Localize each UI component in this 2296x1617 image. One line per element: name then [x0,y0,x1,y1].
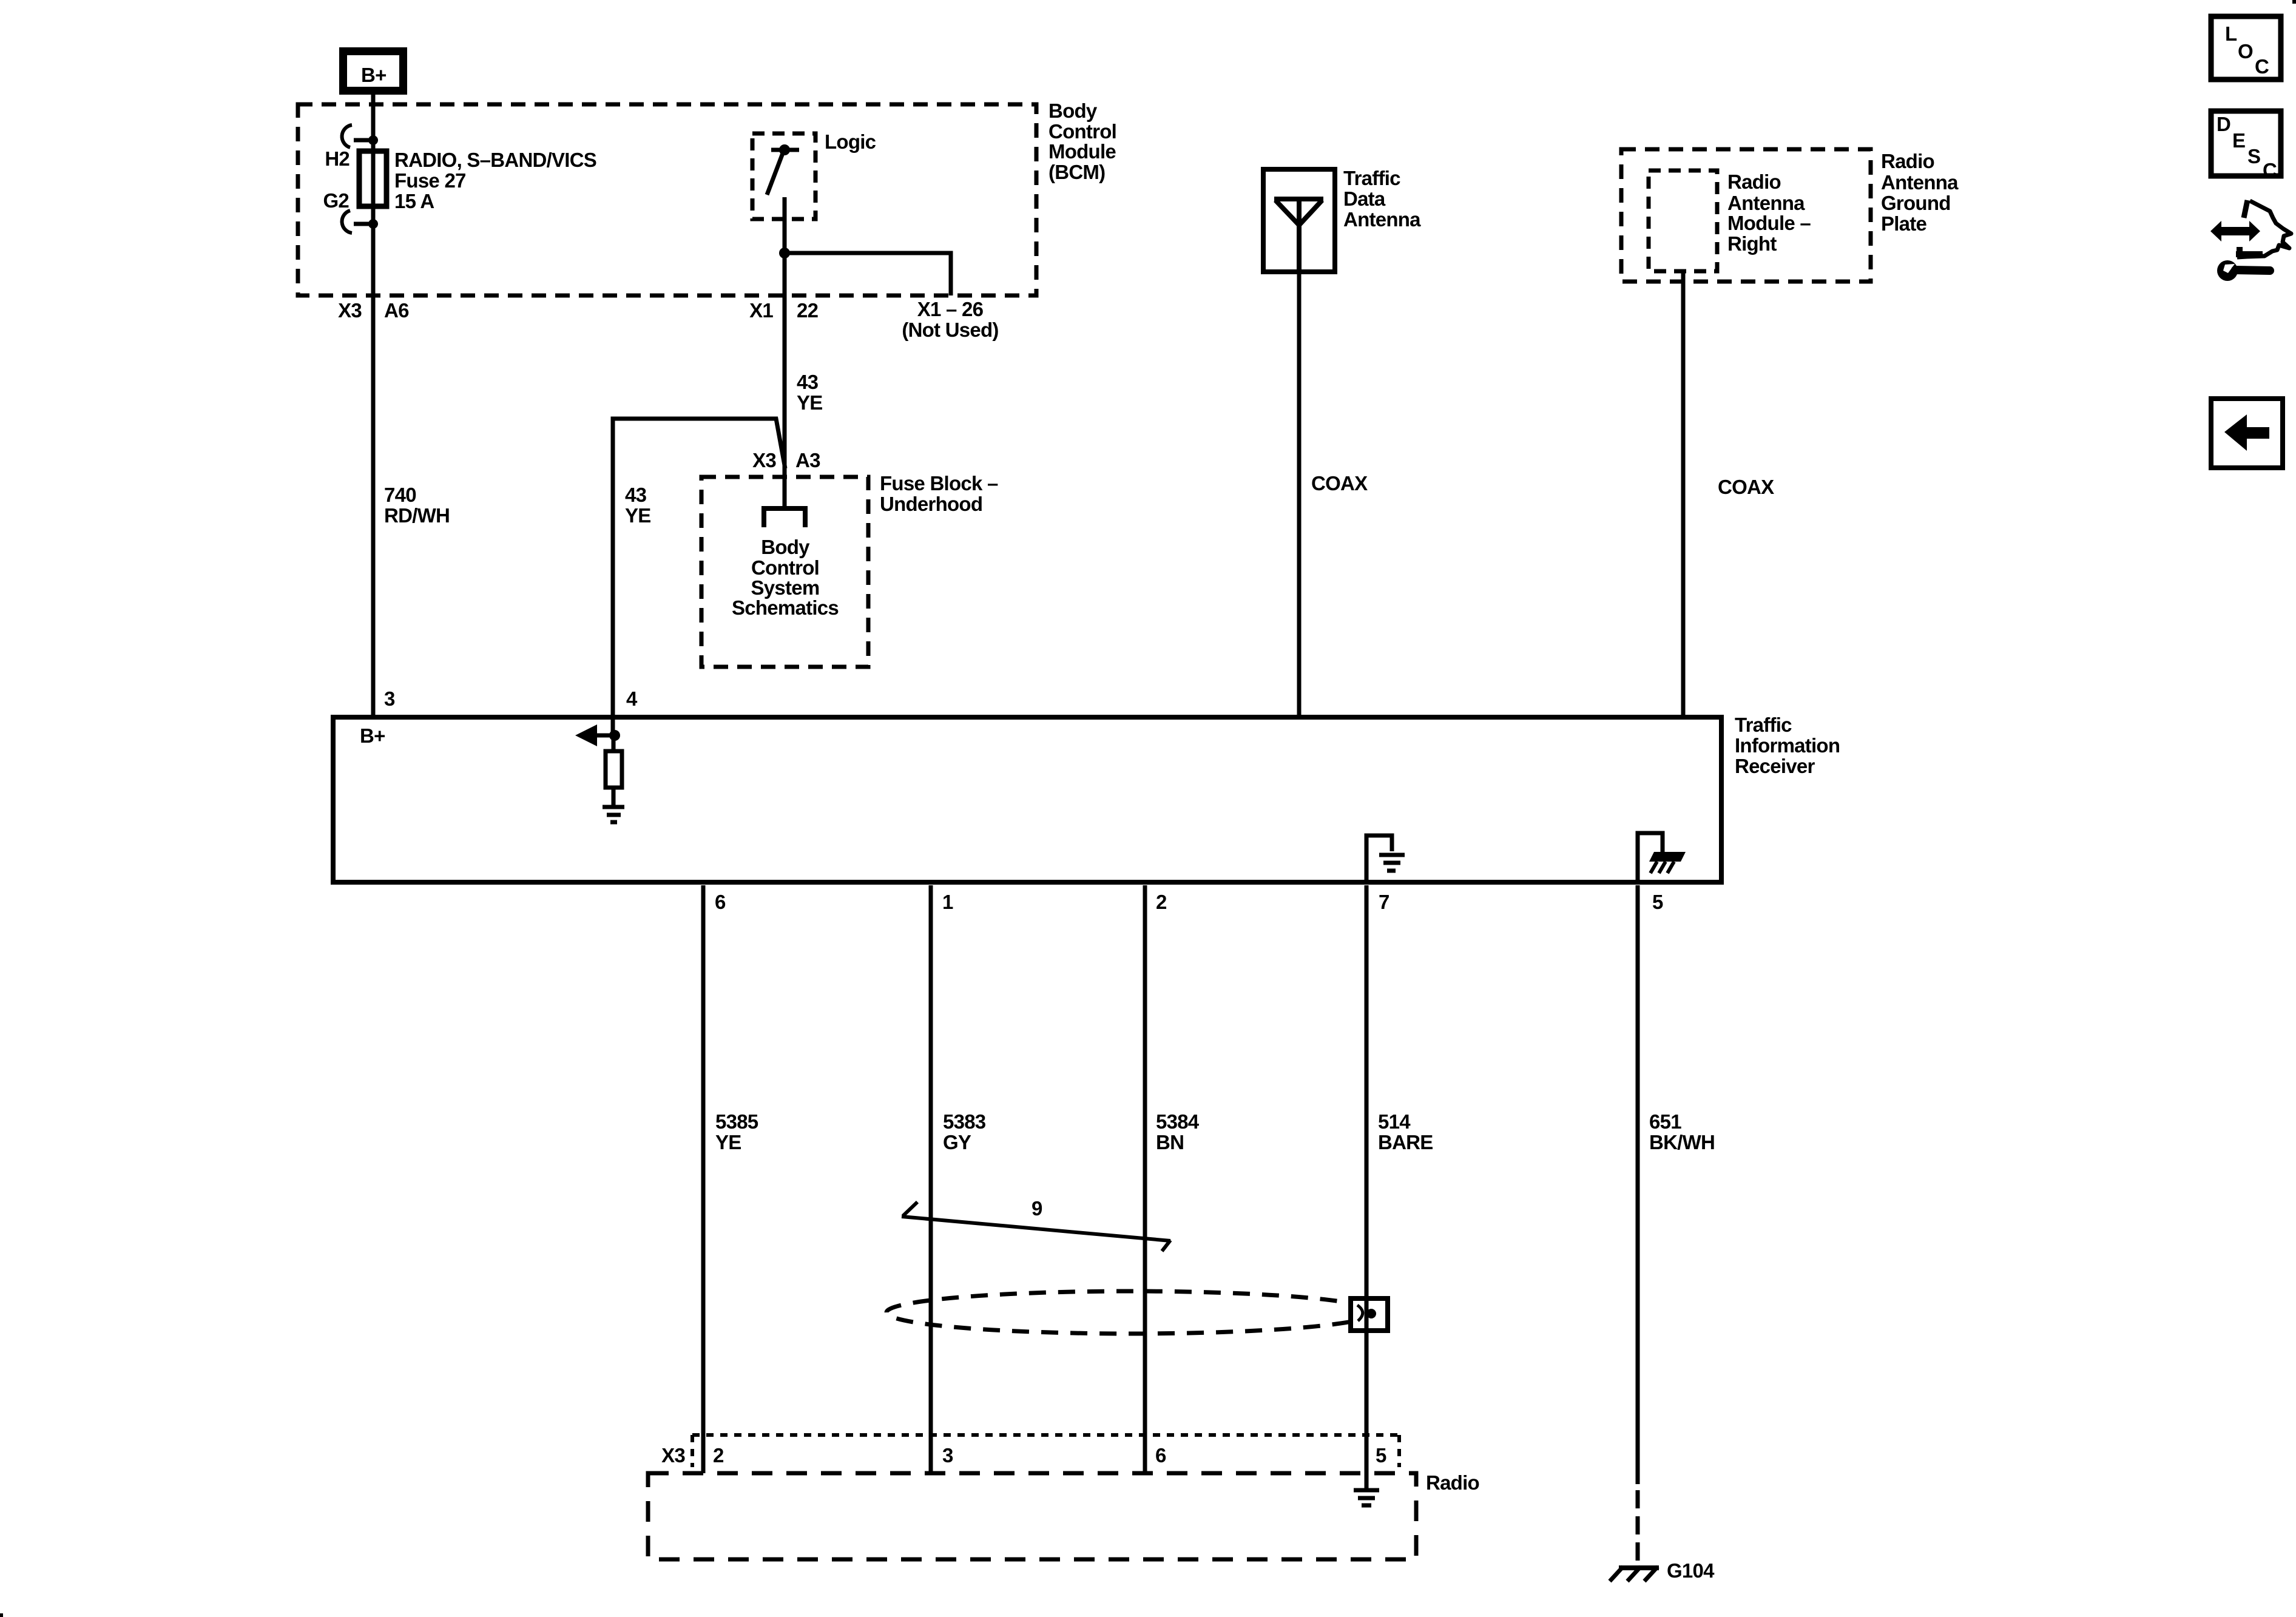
traffic data antenna label [1343,167,1421,231]
svg-text:Antenna: Antenna [1343,208,1421,231]
svg-text:9: 9 [1032,1197,1042,1220]
receiver internal resistor to ground at pin 4 [575,715,624,822]
svg-text:740: 740 [384,484,416,506]
wire B+ to receiver pin 3 (740 RD/WH) [371,95,376,715]
svg-text:4: 4 [626,687,638,710]
wire 514 BARE pin7 to radio ground [1365,885,1369,1490]
wire label 5384 BN [1156,1110,1200,1153]
svg-text:S: S [2247,145,2260,167]
svg-text:A6: A6 [384,299,409,322]
body control system schematics note [732,536,839,619]
svg-text:5383: 5383 [943,1110,986,1133]
svg-text:1: 1 [942,891,953,913]
svg-text:2: 2 [713,1444,724,1467]
svg-text:B+: B+ [360,724,385,747]
svg-text:Traffic: Traffic [1735,714,1792,736]
svg-text:514: 514 [1378,1110,1411,1133]
radio internal ground [1354,1490,1379,1505]
svg-text:651: 651 [1649,1110,1681,1133]
fuse F27 body [359,151,387,206]
svg-text:Control: Control [1048,120,1116,143]
svg-text:Fuse Block –: Fuse Block – [880,472,998,495]
svg-text:5384: 5384 [1156,1110,1200,1133]
Fuse Block - Underhood dashed box [701,477,868,667]
twisted pair indicator 9 [902,1197,1170,1251]
Traffic Information Receiver box [333,717,1721,882]
svg-text:BK/WH: BK/WH [1649,1131,1715,1153]
svg-text:BARE: BARE [1378,1131,1433,1153]
svg-text:System: System [751,576,820,599]
svg-text:G2: G2 [323,189,349,212]
wire 43 YE branch to receiver pin 4 [613,419,785,715]
wire 5383 GY pin1 to radio [929,885,933,1473]
svg-text:(Not Used): (Not Used) [902,319,998,341]
svg-text:Control: Control [751,556,819,579]
svg-text:H2: H2 [325,147,349,170]
svg-text:X3: X3 [752,449,776,471]
wire label 43 YE upper [797,371,823,414]
corner mark top right [2292,0,2296,4]
svg-text:5: 5 [1376,1444,1386,1467]
svg-text:5: 5 [1652,891,1663,913]
svg-text:Antenna: Antenna [1727,192,1805,214]
svg-text:22: 22 [797,299,819,322]
radio antenna module label [1727,170,1811,255]
svg-text:2: 2 [1156,891,1167,913]
wire label 43 YE lower [625,484,651,527]
wire stub to X1-26 not used [785,253,951,295]
svg-text:X3: X3 [338,299,362,322]
wire 651 BK/WH pin5 to G104 [1636,885,1640,1484]
svg-text:X1 – 26: X1 – 26 [917,298,984,320]
svg-text:COAX: COAX [1718,476,1774,498]
svg-text:7: 7 [1379,891,1389,913]
svg-text:6: 6 [1155,1444,1166,1467]
svg-text:Traffic: Traffic [1343,167,1400,189]
svg-text:X1: X1 [749,299,773,322]
svg-text:BN: BN [1156,1131,1184,1153]
svg-text:3: 3 [942,1444,953,1467]
svg-text:Underhood: Underhood [880,493,982,515]
wire label 5385 YE [715,1110,758,1153]
svg-text:6: 6 [715,891,726,913]
radio connector X3 dotted line [692,1435,1399,1467]
svg-text:Module: Module [1048,140,1116,163]
BCM pin label X1-26 [902,298,998,341]
svg-text:B+: B+ [361,64,387,86]
svg-text:RADIO, S–BAND/VICS: RADIO, S–BAND/VICS [394,149,596,171]
svg-text:Logic: Logic [825,130,876,153]
wire label 514 BARE [1378,1110,1433,1153]
ground G104 [1610,1559,1715,1582]
svg-text:3: 3 [384,687,395,710]
svg-text:43: 43 [625,484,647,506]
B+ power symbol box [339,47,407,95]
receiver internal chassis ground at pin 5 [1638,833,1686,883]
svg-text:GY: GY [943,1131,971,1153]
svg-text:E: E [2232,129,2245,152]
sidebar LOC button [2211,16,2281,79]
corner mark bottom left [0,1613,3,1617]
svg-text:X3: X3 [661,1444,685,1467]
svg-text:Data: Data [1343,187,1386,210]
wire label 740 RD/WH [384,484,450,527]
fuse block label [880,472,998,515]
node junction on 43 YE [779,248,790,258]
sidebar DESC button [2211,111,2281,181]
svg-text:Antenna: Antenna [1881,171,1959,194]
wire 5385 YE pin6 to radio [701,885,706,1473]
connector bracket in fuse block [764,508,805,527]
svg-text:C: C [2255,55,2269,78]
Radio Antenna Module - Right dashed box [1649,170,1717,271]
wire label 651 BK/WH [1649,1110,1715,1153]
svg-text:Fuse 27: Fuse 27 [394,169,466,192]
svg-text:COAX: COAX [1311,472,1368,495]
antenna symbol [1274,199,1323,272]
wire BCM X1-22 (43 YE) down to fuse block [783,197,787,506]
svg-text:D: D [2217,113,2230,135]
radio antenna ground plate label [1881,150,1959,235]
svg-text:Radio: Radio [1881,150,1934,172]
svg-text:YE: YE [625,504,651,527]
sidebar service icon [2210,200,2291,281]
receiver internal ground at pin 7 [1366,836,1405,883]
fuse clip top [342,125,378,147]
svg-text:15 A: 15 A [394,190,434,212]
Body Control Module (BCM) dashed box [298,104,1036,295]
svg-text:O: O [2238,40,2253,62]
Logic switch dashed box [752,133,815,219]
svg-text:43: 43 [797,371,819,393]
svg-text:5385: 5385 [715,1110,758,1133]
svg-text:Receiver: Receiver [1735,755,1815,777]
svg-text:RD/WH: RD/WH [384,504,450,527]
Traffic Data Antenna box [1263,169,1335,272]
shield termination square on 514 BARE [1351,1296,1388,1333]
wire label 5383 GY [943,1110,986,1153]
svg-text:Body: Body [761,536,810,558]
wire 5384 BN pin2 to radio [1143,885,1147,1473]
svg-text:YE: YE [715,1131,741,1153]
shield dashed ellipse [886,1291,1376,1334]
coax wire module to receiver [1681,269,1686,715]
svg-text:Module –: Module – [1727,212,1811,234]
svg-text:Ground: Ground [1881,192,1951,214]
fuse name label [394,149,596,212]
svg-text:Radio: Radio [1426,1471,1479,1494]
svg-text:Information: Information [1735,734,1840,757]
coax wire antenna to receiver [1297,272,1302,715]
svg-text:G104: G104 [1667,1559,1715,1582]
svg-text:C: C [2263,159,2277,181]
receiver label [1735,714,1840,777]
svg-text:YE: YE [797,391,823,414]
fuse clip bottom [342,211,378,233]
sidebar back button [2211,399,2283,468]
svg-text:(BCM): (BCM) [1048,161,1105,183]
Radio dashed box [648,1473,1416,1559]
svg-text:L: L [2225,22,2237,45]
BCM label [1048,100,1116,183]
svg-text:Body: Body [1048,100,1098,122]
svg-text:Right: Right [1727,232,1777,255]
Radio Antenna Ground Plate dashed box [1621,149,1871,282]
logic switch symbol [767,144,799,195]
svg-text:Plate: Plate [1881,212,1927,235]
svg-text:A3: A3 [795,449,820,471]
svg-text:Schematics: Schematics [732,596,839,619]
svg-text:Radio: Radio [1727,170,1781,193]
